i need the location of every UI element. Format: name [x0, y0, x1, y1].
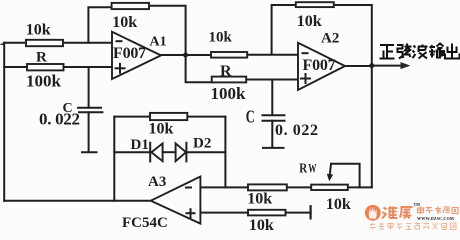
op-amp A3 plus sign [186, 208, 196, 218]
wire A2 inverting input [247, 54, 298, 56]
watermark 电子市场网 small text (drawn blocks) [418, 207, 459, 215]
svg-text:D1: D1 [131, 137, 149, 153]
wire RW left lead to 10k row1 [287, 186, 311, 188]
op-amp A1 minus sign [116, 40, 123, 42]
watermark 维库电子市场网 logo circle icon [365, 205, 381, 221]
char 波 [413, 45, 428, 59]
resistor 10k (A1 inverting input) [26, 40, 63, 46]
svg-text:10k: 10k [247, 191, 272, 208]
svg-text:D2: D2 [193, 136, 211, 152]
wire junction down to second R path [186, 55, 212, 82]
wire RW wiper hook [331, 164, 360, 188]
char 出 [445, 44, 460, 59]
wire A1 feedback right leg [149, 6, 186, 55]
resistor 10k (row1, A3 inverting input) [248, 184, 287, 190]
output arrowhead [401, 62, 411, 69]
svg-text:TM: TM [414, 202, 421, 207]
svg-text:F007: F007 [303, 57, 336, 74]
resistor 10k (A3 feedback) [150, 113, 187, 120]
svg-text:100k: 100k [211, 84, 247, 103]
wire RW right lead [348, 186, 372, 188]
wire A2 feedback right leg [334, 5, 372, 66]
resistor 10k (row2, A3 non-inverting input) [248, 210, 286, 216]
potentiometer RW body [311, 185, 348, 190]
wire right rail A2 output down to RW [371, 66, 373, 188]
op-amp A2 plus sign [300, 73, 311, 84]
char 弦 [397, 44, 412, 59]
svg-text:10k: 10k [26, 22, 51, 39]
svg-text:FC54C: FC54C [122, 215, 168, 231]
svg-text:10k: 10k [209, 30, 233, 46]
wire A3 non-inverting input row [200, 212, 248, 214]
watermark 维库 text (drawn strokes) [382, 207, 413, 219]
svg-text:A3: A3 [148, 174, 166, 190]
char 正 [380, 45, 395, 59]
ground bar below C2 [263, 147, 284, 149]
op-amp A2 triangle [298, 43, 345, 90]
wire A2 output [345, 65, 372, 67]
op-amp A1 triangle [112, 32, 161, 79]
wire left feedback rail (A3 output to input network) [3, 43, 5, 201]
diode D2 triangle [176, 143, 186, 161]
capacitor C1 plates [77, 108, 103, 113]
svg-text:A1: A1 [150, 35, 167, 50]
svg-text:10k: 10k [149, 120, 174, 137]
svg-text:0. 022: 0. 022 [39, 110, 80, 129]
diode D2 cathode bar [185, 142, 187, 163]
wire from R 10k to A1 inverting input [63, 42, 112, 44]
wire capacitor C2 bottom lead [271, 121, 273, 148]
op-amp A3 minus sign [185, 187, 192, 189]
wire A1 non-inverting input (bottom path) [4, 66, 27, 68]
op-amp A3 triangle [151, 177, 201, 224]
svg-text:R: R [220, 63, 232, 80]
svg-text:100k: 100k [26, 72, 62, 91]
wire 10k row1 to A3 inverting input [200, 186, 248, 188]
svg-text:0. 022: 0. 022 [275, 122, 319, 139]
wire A3 feedback frame right leg [224, 117, 226, 188]
node 正弦波输出 (sine wave output text, drawn strokes) [380, 44, 460, 59]
svg-text:10k: 10k [112, 14, 137, 31]
svg-text:10k: 10k [297, 13, 322, 30]
wire from mid 100k to A2 non-inverting input [246, 79, 298, 81]
resistor R/100k (A2 non-inverting input) [212, 77, 247, 83]
wire A1 feedback left leg [88, 7, 111, 43]
wire A1 output to junction [161, 54, 211, 56]
junction dot A2 output [369, 63, 374, 68]
op-amp A1 plus sign [115, 63, 126, 74]
watermark bottom slogan 专业电子元器件交易网站 (tiny blocks) [370, 223, 456, 230]
wire RW wiper arrow shaft [330, 164, 331, 175]
svg-text:F007: F007 [113, 45, 146, 62]
diode D1 triangle [151, 143, 162, 161]
wire 10k row2 to ground terminal [286, 212, 311, 214]
resistor 10k (A1 feedback) [112, 3, 149, 9]
wire diode branch left [114, 151, 150, 153]
svg-text:W: W [308, 161, 317, 175]
ground terminal bar row2 [310, 206, 312, 218]
capacitor C2 plates [262, 115, 286, 120]
svg-text:R: R [299, 162, 308, 177]
wire capacitor C2 top lead [271, 80, 273, 115]
svg-text:10k: 10k [249, 217, 274, 232]
svg-text:R: R [36, 50, 47, 66]
char 输 [429, 44, 444, 58]
svg-text:WWW.DZSC.COM: WWW.DZSC.COM [417, 216, 454, 221]
wire A1 inverting input (top path) [4, 42, 26, 44]
RW wiper arrowhead [327, 174, 333, 181]
wire capacitor C1 top lead [88, 67, 90, 108]
op-amp A2 minus sign [302, 52, 309, 54]
resistor 10k (A2 inverting input) [211, 52, 247, 58]
wire between diodes D1 D2 [163, 151, 176, 153]
wire nub at rail top corner [1, 43, 4, 45]
diode D1 cathode bar [149, 142, 151, 163]
wire A3 feedback frame top right [187, 116, 225, 118]
wire capacitor C1 bottom lead [88, 112, 90, 151]
svg-text:C: C [246, 107, 255, 127]
resistor R/100k (A1 non-inverting input) [27, 64, 64, 70]
resistor 10k (A2 feedback) [296, 2, 334, 7]
svg-text:A2: A2 [321, 31, 339, 47]
svg-text:10k: 10k [326, 196, 351, 213]
wire diode branch right [186, 151, 225, 153]
wire from R 100k to A1 non-inverting input [64, 66, 113, 68]
junction dot A1 output [183, 53, 188, 58]
wire bottom (A3 output) [4, 200, 150, 202]
wire A3 feedback frame top left [114, 116, 150, 118]
ground bar below C1 [82, 151, 97, 153]
wire output arrow line [372, 65, 403, 67]
wire A3 feedback frame left leg [113, 117, 115, 201]
wire A2 feedback left leg [272, 5, 296, 54]
